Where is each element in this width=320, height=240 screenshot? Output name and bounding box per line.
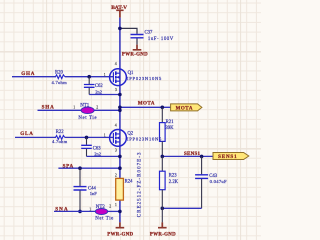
svg-text:1: 1 xyxy=(115,203,117,207)
svg-text:4: 4 xyxy=(115,123,117,127)
wire R20 to Q1 gate xyxy=(65,76,114,78)
resistor R22 xyxy=(52,130,68,144)
svg-text:C37: C37 xyxy=(145,31,153,36)
junction xyxy=(118,155,122,159)
svg-text:1uF- 100V: 1uF- 100V xyxy=(148,37,174,42)
svg-text:GLA: GLA xyxy=(20,131,34,137)
svg-text:CRE2512-FZ-R007E-3: CRE2512-FZ-R007E-3 xyxy=(137,151,142,217)
capacitor C63 xyxy=(81,137,101,156)
svg-text:NT2: NT2 xyxy=(96,205,106,210)
wire SNA xyxy=(54,210,96,212)
wire C63 return xyxy=(87,155,120,157)
junction xyxy=(161,155,165,159)
svg-text:4.7ohm: 4.7ohm xyxy=(52,80,68,85)
wire SENS1 xyxy=(162,155,213,157)
junction xyxy=(118,210,122,214)
wire NT1 to spine xyxy=(94,109,120,111)
svg-text:3: 3 xyxy=(115,88,117,92)
power port BAT-V xyxy=(111,5,127,18)
power ground PWR-GND (bottom right) xyxy=(150,222,176,237)
power ground PWR-GND (bottom left) xyxy=(107,222,133,237)
svg-text:1: 1 xyxy=(73,105,75,109)
wire GHA xyxy=(12,76,56,78)
svg-text:R24: R24 xyxy=(125,179,133,184)
svg-text:SENS1: SENS1 xyxy=(218,155,237,160)
resistor R21 xyxy=(160,107,175,156)
resistor R20 xyxy=(52,71,68,86)
transistor Q2 xyxy=(104,123,162,152)
junction xyxy=(87,75,91,79)
svg-text:39K: 39K xyxy=(165,126,174,131)
svg-text:MOTA: MOTA xyxy=(176,106,193,111)
capacitor C44 xyxy=(74,168,98,211)
junction xyxy=(161,106,165,110)
junction xyxy=(161,207,165,211)
capacitor C62 xyxy=(84,77,103,95)
svg-text:4.7ohm: 4.7ohm xyxy=(52,139,68,144)
svg-text:NT1: NT1 xyxy=(80,104,90,109)
port SENS1 xyxy=(213,153,249,161)
junction xyxy=(200,155,204,159)
wire spine BAT-V to ground xyxy=(119,18,121,223)
port MOTA xyxy=(171,104,202,111)
capacitor C37 xyxy=(131,31,174,45)
svg-text:4: 4 xyxy=(115,62,117,66)
svg-text:R23: R23 xyxy=(169,173,177,178)
wire C62 return xyxy=(89,94,120,96)
svg-text:1: 1 xyxy=(89,208,91,212)
resistor R24 xyxy=(115,151,142,217)
svg-text:R21: R21 xyxy=(166,120,174,125)
junction xyxy=(78,210,82,214)
wire R22 to Q2 gate xyxy=(65,136,114,138)
junction xyxy=(118,27,122,31)
svg-text:MOTA: MOTA xyxy=(138,102,155,107)
svg-text:1: 1 xyxy=(104,73,106,77)
net tie NT1 xyxy=(73,104,98,121)
svg-text:2: 2 xyxy=(109,205,111,209)
svg-text:IPP023N10N5: IPP023N10N5 xyxy=(127,76,162,81)
power ground PWR-GND (top) xyxy=(122,45,148,58)
resistor R23 xyxy=(160,156,179,222)
wire C43 return xyxy=(162,207,201,209)
svg-text:2: 2 xyxy=(96,105,98,109)
svg-text:Net Tie: Net Tie xyxy=(78,116,97,121)
junction xyxy=(78,166,82,170)
svg-text:2n2: 2n2 xyxy=(95,89,102,94)
junction xyxy=(85,136,89,140)
svg-text:PWR-GND: PWR-GND xyxy=(150,233,176,238)
capacitor C43 xyxy=(195,156,227,208)
junction xyxy=(118,109,122,113)
wire GLA xyxy=(15,136,56,138)
svg-text:1nF: 1nF xyxy=(90,191,98,196)
transistor Q1 xyxy=(104,62,162,92)
junction xyxy=(118,166,122,170)
svg-text:1: 1 xyxy=(104,134,106,138)
junction xyxy=(118,93,122,97)
svg-text:R22: R22 xyxy=(56,130,64,135)
wire NT2 to spine xyxy=(108,210,120,212)
svg-text:0.047uF: 0.047uF xyxy=(210,179,227,184)
wire SPA xyxy=(58,167,120,169)
svg-text:2: 2 xyxy=(115,174,117,178)
svg-text:PWR-GND: PWR-GND xyxy=(122,52,148,57)
svg-text:R20: R20 xyxy=(55,71,63,76)
wire MOTA xyxy=(120,106,171,108)
svg-text:PWR-GND: PWR-GND xyxy=(107,233,133,238)
wire C37 branch xyxy=(120,28,137,34)
svg-text:GHA: GHA xyxy=(21,71,35,77)
svg-text:2.2K: 2.2K xyxy=(169,180,179,185)
svg-text:Net Tie: Net Tie xyxy=(95,216,114,221)
svg-text:IPP023N10N5: IPP023N10N5 xyxy=(127,136,162,141)
net tie NT2 xyxy=(89,205,114,222)
wire SHA xyxy=(38,109,82,111)
junction xyxy=(118,106,122,110)
svg-text:3: 3 xyxy=(115,149,117,153)
